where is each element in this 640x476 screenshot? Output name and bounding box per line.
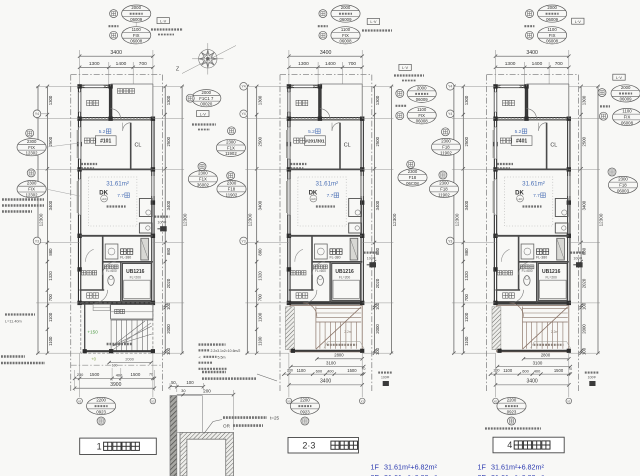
svg-text:X3: X3	[567, 399, 571, 403]
svg-text:31.61m²: 31.61m²	[316, 180, 339, 187]
svg-text:UB1216: UB1216	[126, 269, 145, 275]
svg-text:1300: 1300	[257, 95, 262, 105]
svg-text:1400: 1400	[532, 61, 543, 67]
svg-text:31.61m²+6.82m²: 31.61m²+6.82m²	[491, 462, 545, 471]
svg-text:400: 400	[327, 368, 334, 373]
svg-text:2000: 2000	[417, 85, 427, 90]
svg-text:100: 100	[112, 363, 118, 367]
svg-text:1300: 1300	[48, 95, 53, 105]
svg-text:2800: 2800	[541, 353, 551, 358]
svg-text:3400: 3400	[257, 200, 262, 210]
svg-text:1320: 1320	[48, 271, 53, 281]
svg-text:Y4: Y4	[242, 85, 246, 89]
svg-text:2300: 2300	[198, 171, 208, 176]
svg-text:200: 200	[203, 389, 211, 394]
svg-text:X0: X0	[494, 399, 498, 403]
svg-text:F18: F18	[409, 175, 417, 180]
svg-text:31.61m²: 31.61m²	[106, 180, 129, 187]
svg-text:2000: 2000	[375, 324, 380, 334]
svg-text:100: 100	[375, 347, 380, 355]
svg-text:700: 700	[464, 294, 469, 302]
svg-text:L·V: L·V	[616, 75, 622, 80]
svg-text:L·V: L·V	[575, 19, 581, 24]
svg-text:06003: 06003	[617, 188, 630, 193]
svg-text:3400: 3400	[166, 200, 171, 210]
svg-text:06C08: 06C08	[406, 181, 419, 186]
svg-text:1400: 1400	[325, 61, 336, 67]
svg-text:1500: 1500	[347, 368, 357, 373]
svg-text:06008: 06008	[340, 39, 353, 44]
svg-text:DK: DK	[515, 191, 524, 197]
svg-text:3400: 3400	[320, 378, 331, 384]
svg-text:4: 4	[507, 440, 512, 450]
svg-text:700: 700	[555, 61, 563, 67]
svg-text:1100: 1100	[464, 336, 469, 346]
svg-text:700: 700	[48, 294, 53, 302]
svg-text:2500: 2500	[257, 136, 262, 146]
svg-text:2000: 2000	[341, 5, 351, 10]
svg-text:1300: 1300	[582, 95, 587, 105]
svg-text:30: 30	[181, 388, 186, 393]
svg-text:L·V: L·V	[370, 19, 376, 24]
svg-text:F18: F18	[442, 145, 450, 150]
svg-text:880: 880	[464, 248, 469, 256]
svg-text:CL: CL	[134, 143, 141, 149]
svg-text:100Φ: 100Φ	[367, 256, 376, 260]
svg-text:11902: 11902	[438, 192, 450, 197]
svg-text:5.2: 5.2	[515, 129, 522, 135]
svg-text:880: 880	[582, 247, 587, 255]
svg-text:DK: DK	[99, 191, 108, 197]
svg-text:5.2: 5.2	[99, 129, 106, 135]
svg-text:FIX: FIX	[342, 33, 349, 38]
svg-text:2.2m: 2.2m	[344, 330, 352, 334]
svg-text:00020: 00020	[200, 102, 213, 107]
svg-text:FIX: FIX	[28, 187, 35, 192]
svg-text:2200: 2200	[96, 398, 106, 403]
svg-text:12300: 12300	[183, 213, 188, 226]
svg-text:100Φ: 100Φ	[588, 375, 597, 379]
svg-text:2000: 2000	[131, 5, 141, 10]
svg-text:700: 700	[348, 61, 356, 67]
svg-text:3400: 3400	[464, 200, 469, 210]
svg-text:06009: 06009	[130, 17, 143, 22]
svg-text:2200: 2200	[300, 398, 310, 403]
svg-text:1500: 1500	[131, 372, 141, 377]
svg-text:1100: 1100	[547, 27, 557, 32]
svg-text:F1X: F1X	[199, 177, 207, 182]
svg-text:06008: 06008	[130, 39, 143, 44]
svg-text:1300: 1300	[298, 61, 309, 67]
svg-text:2020: 2020	[166, 278, 171, 288]
svg-text:L·V: L·V	[200, 111, 206, 116]
svg-text:2500: 2500	[48, 136, 53, 146]
svg-text:2020: 2020	[582, 278, 587, 288]
svg-text:1F: 1F	[478, 462, 487, 471]
svg-text:11902: 11902	[226, 192, 238, 197]
svg-text:2500: 2500	[166, 136, 171, 146]
svg-text:400: 400	[534, 368, 541, 373]
svg-text:1100: 1100	[417, 107, 427, 112]
svg-text:2300: 2300	[226, 140, 236, 145]
svg-text:FIX: FIX	[549, 33, 556, 38]
svg-text:2300: 2300	[618, 177, 628, 182]
svg-text:06008: 06008	[621, 120, 634, 125]
svg-text:2000: 2000	[202, 90, 212, 95]
svg-text:11902: 11902	[440, 150, 452, 155]
svg-text:06009: 06009	[416, 97, 429, 102]
svg-text:FL-380: FL-380	[120, 255, 131, 259]
svg-text:L·V: L·V	[160, 18, 166, 23]
svg-text:1500: 1500	[554, 368, 564, 373]
svg-text:3400: 3400	[375, 200, 380, 210]
svg-text:06009: 06009	[620, 97, 633, 102]
svg-text:100: 100	[166, 347, 171, 355]
svg-text:600: 600	[316, 368, 323, 373]
svg-text:FIX: FIX	[624, 115, 631, 120]
svg-text:F18: F18	[228, 187, 236, 192]
svg-text:F18: F18	[619, 183, 627, 188]
svg-text:12302: 12302	[26, 151, 39, 156]
svg-text:LED: LED	[102, 198, 107, 201]
svg-text:+150: +150	[87, 330, 98, 335]
svg-text:UB1216: UB1216	[335, 269, 354, 275]
svg-text:1100: 1100	[257, 336, 262, 346]
svg-text:1300: 1300	[89, 61, 100, 67]
svg-text:3400: 3400	[527, 378, 538, 384]
svg-text:0923: 0923	[300, 409, 310, 414]
svg-text:3400: 3400	[110, 50, 122, 56]
svg-text:1100: 1100	[257, 312, 262, 322]
svg-text:06008: 06008	[546, 39, 559, 44]
svg-text:2300: 2300	[227, 181, 237, 186]
svg-text:#101: #101	[100, 139, 111, 145]
svg-text:2000: 2000	[125, 357, 133, 361]
svg-text:+0: +0	[91, 357, 96, 362]
svg-text:2000: 2000	[582, 324, 587, 334]
svg-text:Y4: Y4	[242, 112, 246, 116]
svg-text:Y4: Y4	[448, 85, 452, 89]
svg-text:F1X: F1X	[227, 146, 235, 151]
svg-text:3100: 3100	[326, 360, 336, 365]
svg-text:1300: 1300	[375, 95, 380, 105]
svg-text:1F: 1F	[371, 462, 380, 471]
svg-text:F18: F18	[440, 187, 448, 192]
svg-text:2.2m: 2.2m	[551, 330, 559, 334]
svg-text:1100: 1100	[341, 27, 351, 32]
svg-text:7.7: 7.7	[117, 193, 124, 199]
svg-text:2800: 2800	[334, 353, 344, 358]
svg-text:Y4: Y4	[35, 112, 39, 116]
svg-text:12300: 12300	[392, 213, 397, 226]
svg-text:700: 700	[139, 61, 147, 67]
svg-text:100: 100	[582, 347, 587, 355]
svg-text:12302: 12302	[26, 192, 39, 197]
svg-text:5.2: 5.2	[308, 129, 315, 135]
svg-text:X0: X0	[78, 399, 82, 403]
svg-text:1320: 1320	[464, 271, 469, 281]
svg-text:1: 1	[97, 442, 102, 452]
svg-text:FL=600: FL=600	[106, 269, 117, 273]
svg-text:2000: 2000	[166, 324, 171, 334]
svg-text:100: 100	[186, 380, 194, 385]
svg-text:2500: 2500	[375, 136, 380, 146]
svg-text:X3: X3	[151, 399, 155, 403]
svg-text:50: 50	[171, 380, 176, 385]
svg-text:Y4: Y4	[448, 112, 452, 116]
svg-text:880: 880	[257, 248, 262, 256]
svg-text:06009: 06009	[546, 17, 559, 22]
svg-text:F1C1 7: F1C1 7	[199, 96, 214, 101]
svg-text:CL: CL	[550, 143, 557, 149]
svg-text:X3: X3	[361, 399, 365, 403]
svg-text:UB1216: UB1216	[542, 269, 561, 275]
svg-text:FL-380: FL-380	[536, 255, 547, 259]
svg-text:1400: 1400	[116, 61, 127, 67]
svg-text:06008: 06008	[416, 119, 429, 124]
svg-text:230: 230	[77, 372, 84, 377]
svg-text:2300: 2300	[27, 139, 37, 144]
svg-text:Y3: Y3	[35, 239, 39, 243]
svg-text:12300: 12300	[248, 213, 253, 226]
svg-text:1100: 1100	[464, 312, 469, 322]
svg-text:FL=600: FL=600	[315, 269, 326, 273]
svg-text:230: 230	[287, 368, 293, 372]
svg-text:2.2x3.1x2=10.6m/2: 2.2x3.1x2=10.6m/2	[211, 349, 241, 353]
svg-text:3400: 3400	[320, 50, 332, 56]
svg-text:2300: 2300	[27, 181, 37, 186]
svg-text:1100: 1100	[48, 312, 53, 322]
svg-text:FL=200: FL=200	[546, 275, 557, 279]
svg-text:36002: 36002	[197, 182, 210, 187]
svg-text:31.61m²: 31.61m²	[522, 180, 545, 187]
svg-text:FL-380: FL-380	[329, 255, 340, 259]
svg-text:100: 100	[166, 302, 171, 310]
svg-text:100Φ: 100Φ	[381, 375, 390, 379]
svg-text:1100: 1100	[622, 109, 632, 114]
svg-text:1300: 1300	[505, 61, 516, 67]
svg-text:1300: 1300	[166, 95, 171, 105]
svg-text:L·V: L·V	[402, 65, 408, 70]
svg-text:2020: 2020	[375, 278, 380, 288]
svg-text:FL=200: FL=200	[339, 275, 350, 279]
svg-text:400: 400	[116, 372, 123, 377]
svg-text:0923: 0923	[96, 409, 106, 414]
svg-text:31.61m²+6.82m²: 31.61m²+6.82m²	[384, 462, 438, 471]
svg-text:3400: 3400	[48, 200, 53, 210]
svg-text:1320: 1320	[257, 271, 262, 281]
svg-text:12300: 12300	[598, 213, 603, 226]
svg-text:5.5m: 5.5m	[218, 355, 226, 359]
svg-text:L=11.40m: L=11.40m	[5, 320, 22, 324]
svg-text:X0: X0	[287, 399, 291, 403]
svg-text:12300: 12300	[38, 213, 43, 226]
svg-text:2500: 2500	[582, 136, 587, 146]
svg-text:3100: 3100	[533, 360, 543, 365]
svg-text:11902: 11902	[225, 151, 237, 156]
svg-text:LED: LED	[311, 198, 316, 201]
svg-text:100: 100	[375, 302, 380, 310]
svg-text:880: 880	[48, 248, 53, 256]
svg-text:1500: 1500	[90, 372, 100, 377]
svg-text:1300: 1300	[464, 95, 469, 105]
svg-text:1100: 1100	[48, 336, 53, 346]
svg-text:230: 230	[494, 368, 500, 372]
svg-text:OR: OR	[223, 423, 231, 428]
svg-text:2300: 2300	[408, 169, 418, 174]
svg-text:FL=600: FL=600	[522, 269, 533, 273]
svg-text:t=25: t=25	[270, 416, 280, 421]
svg-text:2300: 2300	[439, 181, 449, 186]
svg-text:3400: 3400	[582, 200, 587, 210]
svg-text:880: 880	[166, 247, 171, 255]
svg-text:Y3: Y3	[242, 239, 246, 243]
svg-text:#201/301: #201/301	[305, 139, 325, 144]
svg-text:100: 100	[582, 302, 587, 310]
svg-text:DK: DK	[309, 191, 318, 197]
svg-text:1100: 1100	[132, 27, 142, 32]
svg-text:3900: 3900	[110, 382, 121, 388]
svg-text:2200: 2200	[507, 398, 517, 403]
svg-text:600: 600	[522, 368, 529, 373]
svg-text:70: 70	[149, 372, 153, 376]
svg-text:2500: 2500	[464, 136, 469, 146]
svg-text:FL=200: FL=200	[130, 275, 141, 279]
svg-text:1100: 1100	[297, 368, 307, 373]
svg-text:100Φ: 100Φ	[157, 220, 166, 224]
svg-text:06009: 06009	[340, 17, 353, 22]
svg-text:2000: 2000	[621, 85, 631, 90]
svg-text:FIX: FIX	[133, 33, 140, 38]
svg-text:3400: 3400	[526, 50, 538, 56]
svg-text:7.7: 7.7	[327, 193, 334, 199]
svg-text:1100: 1100	[503, 368, 513, 373]
svg-text:FIX: FIX	[28, 145, 35, 150]
svg-text:880: 880	[375, 247, 380, 255]
svg-text:2300: 2300	[441, 139, 451, 144]
svg-text:Y3: Y3	[448, 239, 452, 243]
svg-text:2000: 2000	[547, 5, 557, 10]
svg-text:2·3: 2·3	[302, 440, 315, 450]
svg-text:LED: LED	[518, 198, 523, 201]
svg-text:#401: #401	[516, 139, 527, 145]
svg-text:CL: CL	[344, 143, 351, 149]
svg-text:0923: 0923	[507, 409, 517, 414]
svg-text:7.7: 7.7	[533, 193, 540, 199]
svg-text:100Φ: 100Φ	[573, 256, 582, 260]
svg-text:FIX: FIX	[418, 113, 425, 118]
svg-text:12300: 12300	[454, 213, 459, 226]
svg-text:700: 700	[257, 294, 262, 302]
